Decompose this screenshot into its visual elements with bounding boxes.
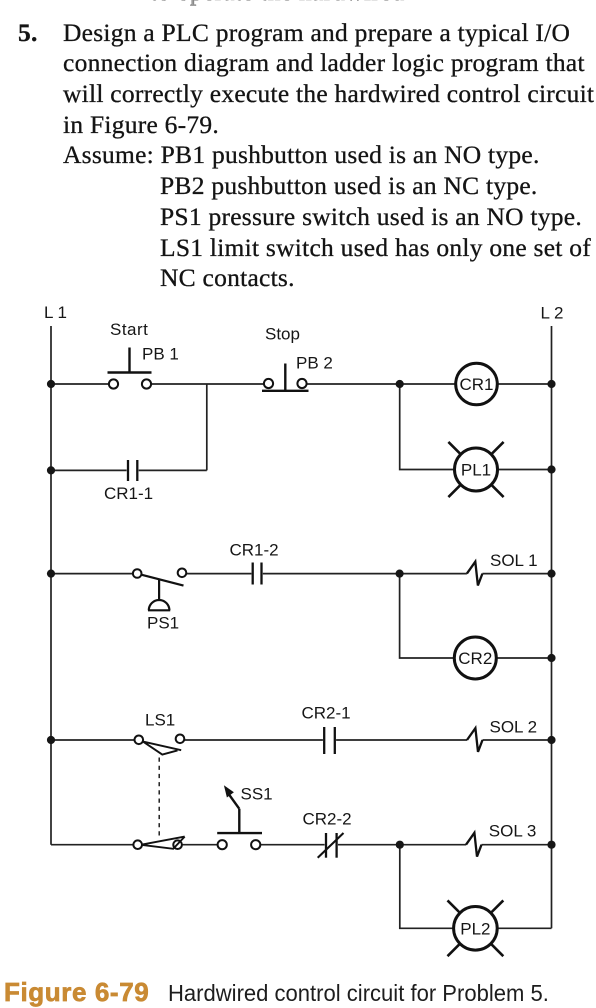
coil CR1 — [456, 363, 498, 405]
wire SOL1 to L2 — [482, 573, 551, 575]
junction dot rung2 L2 — [547, 465, 555, 473]
svg-text:Stop: Stop — [265, 325, 300, 344]
problem text paragraph — [18, 20, 38, 46]
wire rung2 left — [51, 469, 127, 471]
wire rung6 SS1 to CR2-2 — [260, 844, 324, 846]
limit switch LS1 second contact (NC) — [133, 837, 184, 849]
selector switch SS1 — [217, 785, 262, 849]
junction dot rung1 L1 — [47, 380, 55, 388]
svg-text:Start: Start — [110, 320, 148, 339]
limit switch LS1 (NC) — [135, 735, 185, 755]
pilot light PL2 — [448, 900, 504, 956]
wire SOL2 to L2 — [483, 739, 552, 741]
junction dot rung3 L2 — [547, 570, 555, 578]
figure caption text — [168, 980, 549, 1007]
wire rung3 junction down to CR2 — [400, 574, 454, 658]
mechanical link dashed — [158, 758, 160, 838]
wire rung1 middle — [151, 383, 264, 385]
svg-text:SOL 3: SOL 3 — [489, 822, 537, 841]
contact CR1-2 (NO) — [253, 563, 262, 585]
svg-text:L 1: L 1 — [44, 303, 67, 322]
svg-text:PB 1: PB 1 — [142, 345, 179, 364]
svg-text:L 2: L 2 — [541, 304, 564, 323]
wire rung6 junction down to PL2 — [400, 845, 454, 929]
wire rung3 to SOL1 — [263, 573, 467, 575]
junction dot rung1 L2 — [547, 380, 555, 388]
junction dot rung2 L1 — [47, 466, 55, 474]
svg-text:CR2-2: CR2-2 — [303, 809, 352, 828]
cut-off text line at very top — [150, 0, 405, 5]
wire rung6 LS1b to SS1 — [182, 844, 218, 846]
wire rung5 left — [51, 739, 135, 741]
pushbutton PB2 (NC) — [262, 364, 309, 391]
solenoid SOL2 — [467, 728, 483, 752]
svg-text:CR2-1: CR2-1 — [302, 703, 351, 722]
wire rung6 left — [51, 844, 133, 846]
wire rung1 to L2 — [497, 383, 551, 385]
wire rung5 middle — [184, 739, 323, 741]
coil CR2 — [454, 637, 496, 679]
pressure switch PS1 (NO) — [133, 569, 186, 611]
wire PL2 to L2 — [497, 927, 551, 929]
wire PL1 to L2 — [498, 469, 552, 471]
pushbutton PB1 (NO) — [108, 348, 152, 389]
svg-text:SOL 2: SOL 2 — [490, 718, 538, 737]
wire branch T rung1 down — [206, 384, 208, 470]
wire rung5 to SOL2 — [336, 739, 467, 741]
rail L2 — [551, 326, 553, 928]
wire rung3 left — [51, 573, 133, 575]
contact CR2-1 (NO) — [324, 727, 335, 754]
svg-text:CR1: CR1 — [459, 375, 493, 394]
solenoid SOL3 — [466, 833, 482, 857]
rail L1 — [50, 326, 52, 845]
wire SOL3 to L2 — [482, 844, 552, 846]
figure caption number — [4, 977, 149, 1008]
junction dot rung6 mid — [396, 841, 404, 849]
pilot light PL1 — [448, 442, 503, 497]
junction dot rung6 L2 — [547, 841, 555, 849]
svg-text:SS1: SS1 — [241, 785, 273, 804]
svg-text:SOL 1: SOL 1 — [490, 551, 538, 570]
contact CR2-2 (NC) — [318, 833, 344, 858]
contact CR1-1 (NO) — [128, 460, 137, 481]
svg-text:CR1-1: CR1-1 — [104, 484, 153, 503]
junction dot rung3 L1 — [47, 570, 55, 578]
svg-text:PL2: PL2 — [460, 919, 490, 938]
wire rung1 junction down to PL1 — [400, 384, 455, 470]
svg-text:PB 2: PB 2 — [296, 354, 333, 373]
solenoid SOL1 — [467, 562, 483, 586]
junction dot rung4 L2 — [547, 654, 555, 662]
wire rung6 CR2-2 to SOL3 — [338, 844, 466, 846]
wire rung3 middle — [186, 573, 251, 575]
wire rung1 right — [307, 383, 456, 385]
svg-text:LS1: LS1 — [145, 710, 175, 729]
junction dot rung3 mid — [396, 570, 404, 578]
wire CR2 to L2 — [497, 657, 552, 659]
junction dot rung5 L1 — [47, 736, 55, 744]
junction dot rung5 L2 — [547, 736, 555, 744]
svg-text:PS1: PS1 — [147, 614, 179, 633]
wire rung2 to T — [139, 469, 207, 471]
svg-text:PL1: PL1 — [461, 461, 491, 480]
wire rung1 left — [51, 383, 109, 385]
svg-text:CR1-2: CR1-2 — [230, 541, 279, 560]
svg-text:CR2: CR2 — [458, 649, 492, 668]
junction dot rung1 mid — [396, 380, 404, 388]
